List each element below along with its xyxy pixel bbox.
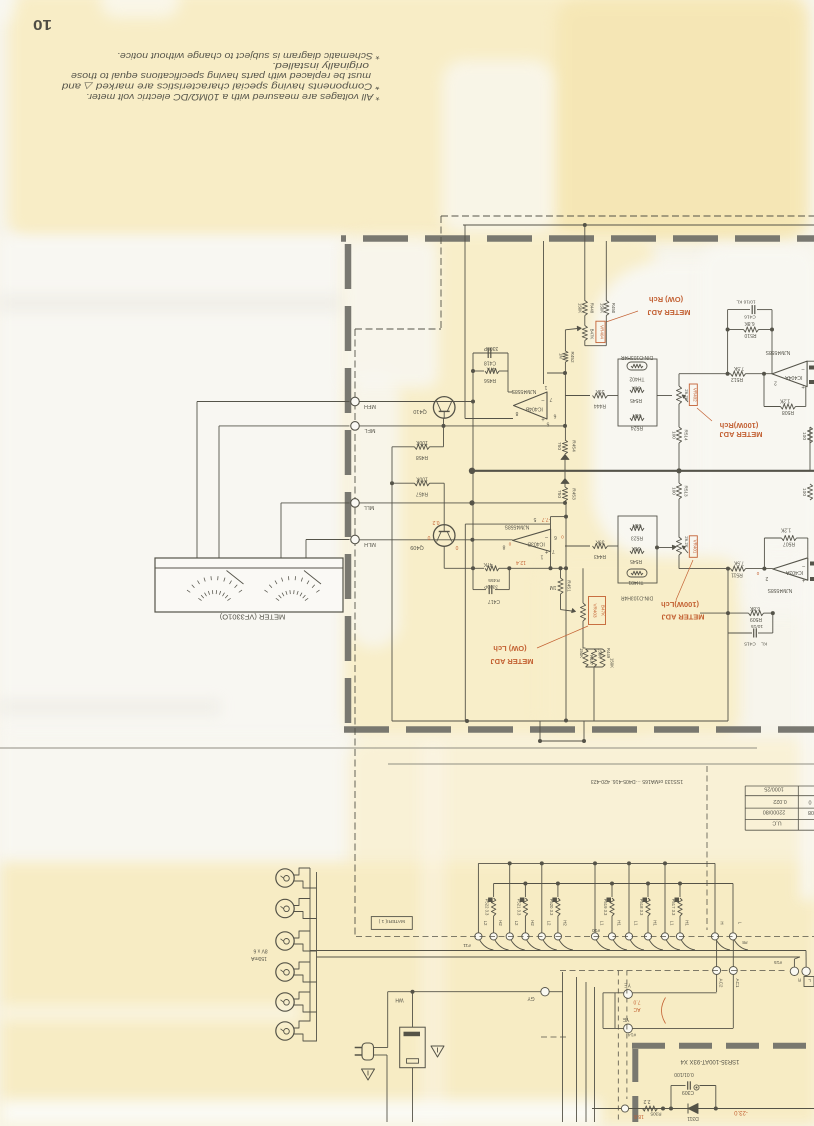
svg-text:IC403A: IC403A [785,569,803,575]
svg-text:#10: #10 [592,927,600,933]
svg-text:AC1: AC1 [735,979,740,988]
svg-text:METER ADJ: METER ADJ [490,657,533,666]
svg-text:#11: #11 [463,942,471,948]
svg-text:R457: R457 [416,491,428,497]
svg-text:P521 3.3: P521 3.3 [516,899,521,916]
svg-text:(OW) Rch: (OW) Rch [649,295,684,304]
svg-text:100: 100 [672,431,677,439]
svg-text:L: L [808,978,811,983]
svg-text:6: 6 [554,534,557,540]
svg-text:H1: H1 [617,920,622,926]
svg-text:-23.0: -23.0 [734,1109,748,1115]
svg-text:−: − [801,366,805,372]
svg-text:47K: 47K [486,366,496,372]
svg-text:-7.7: -7.7 [541,516,550,522]
svg-text:NJM4558S: NJM4558S [767,587,792,593]
svg-text:C309: C309 [682,1089,694,1095]
svg-text:750: 750 [556,490,562,498]
svg-text:MLL: MLL [364,504,375,510]
svg-text:1000/25: 1000/25 [764,786,784,792]
svg-text:DIN-D103H4R: DIN-D103H4R [620,595,653,601]
svg-text:3300P: 3300P [483,345,498,351]
svg-text:L1: L1 [634,921,639,926]
svg-text:150mA: 150mA [250,955,267,961]
svg-text:150K: 150K [578,303,583,313]
svg-text:7: 7 [552,548,555,554]
svg-text:#15: #15 [774,959,782,965]
svg-text:H2: H2 [562,920,567,926]
svg-text:IC404B: IC404B [525,406,543,412]
svg-text:0: 0 [756,571,759,576]
svg-text:0: 0 [809,799,812,805]
svg-text:0: 0 [427,534,430,540]
svg-text:100: 100 [801,432,807,440]
svg-text:+: + [541,416,545,422]
svg-text:(OW) Lch: (OW) Lch [493,644,527,653]
svg-text:YE: YE [622,1016,629,1022]
svg-text:R453: R453 [571,488,577,500]
svg-text:VR401: VR401 [692,540,697,554]
svg-text:P517 3.3: P517 3.3 [671,899,676,916]
svg-text:VR403: VR403 [593,603,598,617]
svg-text:R545: R545 [630,558,642,564]
svg-text:150K: 150K [579,648,584,658]
svg-text:METER (VF3301O): METER (VF3301O) [219,613,285,622]
svg-text:#8: #8 [742,939,748,945]
svg-text:10: 10 [33,16,52,33]
svg-text:150K: 150K [600,303,605,313]
svg-text:1.2K: 1.2K [780,527,791,533]
svg-text:TH402: TH402 [629,376,644,382]
svg-text:L2: L2 [514,921,519,926]
svg-text:R512: R512 [731,376,743,382]
svg-text:C415: C415 [744,641,756,647]
svg-text:AC2: AC2 [719,979,724,988]
svg-text:R456: R456 [484,377,496,383]
svg-text:L: L [738,922,743,925]
svg-text:IC403B: IC403B [527,541,545,547]
svg-text:100: 100 [801,488,807,496]
svg-text:L1: L1 [670,921,675,926]
svg-text:R448: R448 [590,303,595,314]
svg-text:150K: 150K [598,648,603,658]
svg-text:R508: R508 [782,409,794,415]
svg-text:2.2: 2.2 [643,1098,650,1104]
svg-text:H1: H1 [685,920,690,926]
svg-text:26.2K: 26.2K [684,389,689,401]
svg-text:5: 5 [533,516,536,522]
svg-text:KL: KL [761,641,767,647]
svg-text:6.8K: 6.8K [744,320,755,326]
svg-text:+: + [802,577,806,583]
svg-text:R509: R509 [750,616,762,622]
svg-text:39K: 39K [595,388,605,394]
svg-text:R451: R451 [566,580,572,592]
svg-text:H: H [720,921,725,924]
svg-text:R452: R452 [570,352,575,363]
svg-text:100K: 100K [416,476,428,482]
svg-text:−: − [802,562,806,568]
svg-text:7.5K: 7.5K [733,560,744,566]
svg-text:7: 7 [549,396,552,402]
svg-text:100K: 100K [416,439,428,445]
svg-text:R523: R523 [631,535,643,541]
svg-text:* Components having special ch: * Components having special characterist… [61,82,380,92]
svg-text:NJM4558S: NJM4558S [765,349,790,355]
svg-text:U,C: U,C [772,819,781,825]
svg-text:0.01/100: 0.01/100 [674,1071,694,1077]
svg-text:VR404: VR404 [600,325,605,339]
svg-text:39K: 39K [595,539,605,545]
svg-text:B47K: B47K [590,329,595,340]
svg-text:0: 0 [455,544,458,550]
svg-text:6: 6 [553,413,556,419]
svg-text:D311: D311 [687,1115,699,1121]
svg-text:H1: H1 [653,920,658,926]
svg-text:750: 750 [556,442,562,450]
svg-text:must be replaced with parts ha: must be replaced with parts having speci… [71,71,371,81]
svg-text:2: 2 [765,575,768,581]
svg-text:0: 0 [508,542,511,547]
svg-text:R510: R510 [744,332,756,338]
svg-text:0: 0 [561,535,564,540]
svg-text:8: 8 [502,544,505,550]
svg-text:8: 8 [515,410,518,416]
svg-text:Q410: Q410 [413,408,426,414]
svg-text:R444: R444 [594,403,606,409]
svg-text:H2: H2 [530,920,535,926]
svg-text:R305: R305 [650,1112,661,1117]
svg-text:+: + [801,383,805,389]
svg-text:R455: R455 [488,577,500,583]
svg-text:+: + [544,548,548,554]
svg-text:MFH: MFH [364,403,376,409]
svg-text:1M: 1M [550,584,557,590]
svg-text:−: − [541,397,545,403]
svg-text:P522 3.3: P522 3.3 [485,899,490,916]
svg-text:P518 3.3: P518 3.3 [639,899,644,916]
svg-text:08: 08 [808,809,814,815]
svg-text:1.2K: 1.2K [779,398,790,404]
svg-text:R443: R443 [594,553,606,559]
svg-text:(100W)Lch: (100W)Lch [661,600,699,609]
svg-text:#14: #14 [628,1032,636,1038]
svg-text:18.6: 18.6 [634,1113,644,1119]
svg-text:R458: R458 [416,454,428,460]
svg-text:0.022: 0.022 [773,798,787,804]
svg-text:Q409: Q409 [410,544,423,550]
svg-text:47K: 47K [483,561,493,567]
svg-text:C418: C418 [484,360,496,366]
svg-text:26.2K: 26.2K [684,536,689,548]
svg-text:DIN-D103H4R: DIN-D103H4R [620,354,653,360]
svg-text:R513: R513 [684,486,689,497]
svg-text:56K: 56K [631,545,641,551]
svg-text:METER ADJ: METER ADJ [719,430,762,439]
svg-text:WH: WH [395,997,404,1003]
svg-text:R507: R507 [783,541,795,547]
svg-text:150K: 150K [610,658,615,668]
svg-text:(100W)Rch: (100W)Rch [719,421,758,430]
svg-text:7.5K: 7.5K [733,365,744,371]
svg-text:1: 1 [544,384,547,390]
svg-text:L1: L1 [600,921,605,926]
svg-text:L2: L2 [483,921,488,926]
svg-text:B47K: B47K [601,605,606,617]
svg-text:1SR35-100AT-93X X4: 1SR35-100AT-93X X4 [680,1058,740,1064]
svg-text:P520 3.3: P520 3.3 [549,899,554,916]
svg-text:5: 5 [546,421,549,427]
svg-text:C417: C417 [488,598,500,604]
svg-text:P519 3.3: P519 3.3 [603,899,608,916]
svg-text:1M: 1M [559,353,564,359]
svg-text:6.8K: 6.8K [749,605,760,611]
svg-text:MLH: MLH [364,541,376,547]
svg-text:R454: R454 [571,440,577,452]
svg-text:3300P: 3300P [484,584,498,590]
svg-text:* Schematic diagram is subject: * Schematic diagram is subject to change… [117,51,380,61]
svg-text:R: R [797,978,801,983]
svg-text:* All voltages are measured wi: * All voltages are measured with a 10MΩ/… [86,92,380,102]
svg-text:R511: R511 [731,572,743,578]
svg-text:TH401: TH401 [628,579,643,585]
svg-text:GY: GY [527,995,535,1001]
svg-text:R524: R524 [631,425,643,431]
svg-text:100: 100 [672,487,677,495]
svg-text:C416: C416 [744,314,756,320]
svg-text:MFL: MFL [365,427,376,433]
svg-text:AC: AC [633,1006,640,1012]
svg-text:R514: R514 [684,430,689,441]
svg-text:L2: L2 [546,921,551,926]
svg-text:VR402: VR402 [692,388,697,402]
svg-text:originally installed.: originally installed. [272,61,369,71]
svg-text:R545: R545 [630,397,642,403]
svg-text:R450: R450 [611,303,616,314]
svg-text:0.2: 0.2 [432,519,439,525]
svg-text:10/16 KL: 10/16 KL [736,298,756,304]
svg-text:IC404A: IC404A [785,374,803,380]
svg-text:H2: H2 [498,920,503,926]
svg-text:10/15: 10/15 [751,623,763,629]
svg-text:8V x 6: 8V x 6 [253,947,267,953]
svg-text:MATERI( 1 ): MATERI( 1 ) [378,918,405,924]
svg-text:1: 1 [540,554,543,560]
svg-text:METER ADJ: METER ADJ [661,613,704,622]
svg-text:22000/80: 22000/80 [763,809,785,815]
svg-text:7.0: 7.0 [633,999,640,1005]
svg-text:2: 2 [774,380,777,386]
svg-text:NJM4558S: NJM4558S [511,388,536,394]
svg-text:R447: R447 [589,655,594,666]
svg-text:METER ADJ: METER ADJ [647,308,690,317]
svg-text:1SS133 orMA165 ···D405-416. 42: 1SS133 orMA165 ···D405-416. 420-423 [591,778,683,784]
svg-text:12.4: 12.4 [516,559,526,565]
svg-text:−: − [544,534,548,540]
